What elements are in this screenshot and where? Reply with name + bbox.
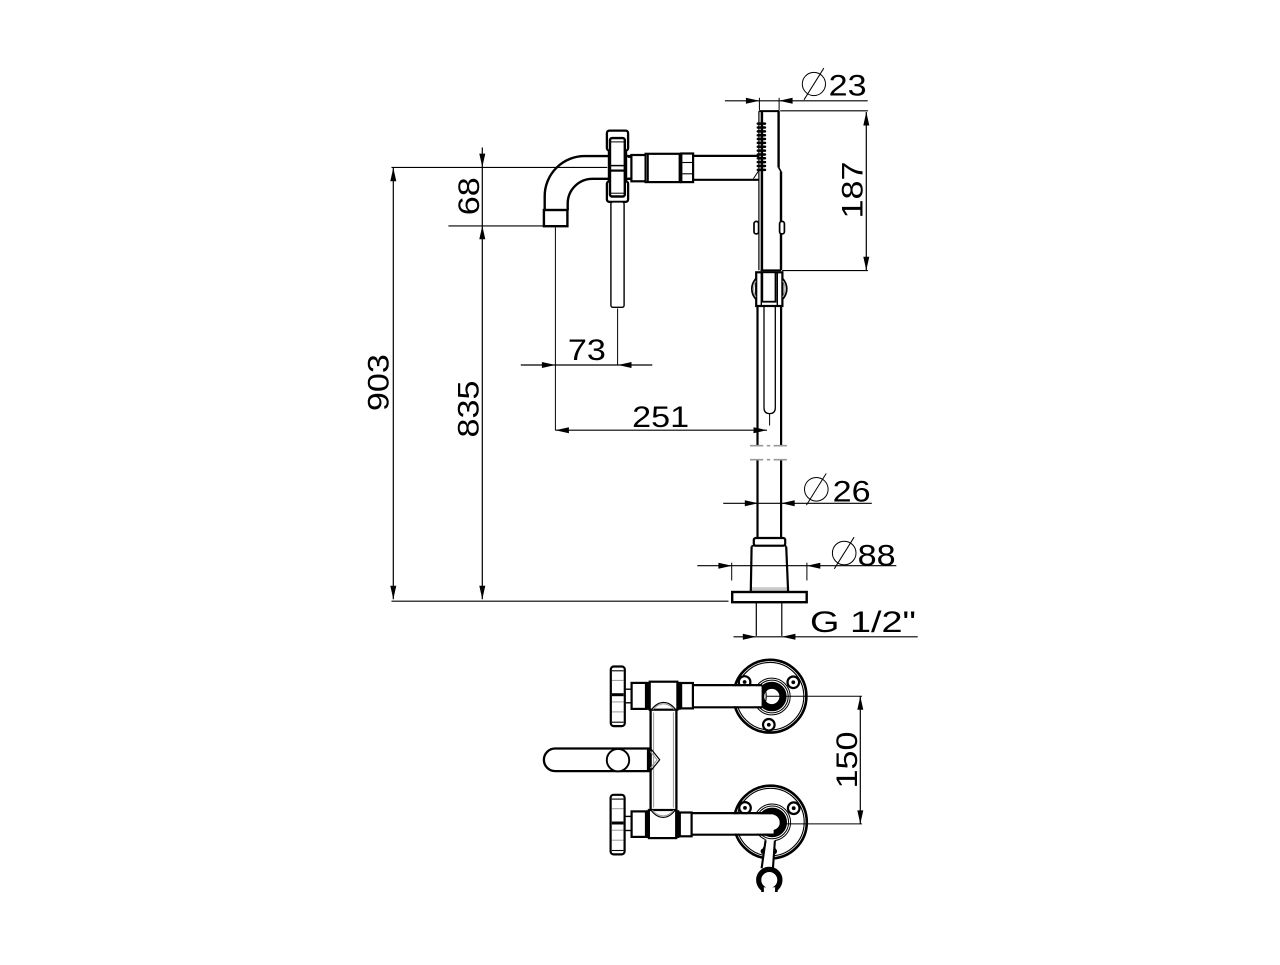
svg-text:23: 23 bbox=[829, 70, 867, 103]
svg-text:187: 187 bbox=[837, 162, 870, 219]
svg-text:68: 68 bbox=[453, 177, 486, 215]
svg-text:73: 73 bbox=[568, 334, 606, 367]
svg-text:251: 251 bbox=[632, 401, 689, 434]
svg-text:835: 835 bbox=[452, 381, 485, 438]
svg-text:G 1/2": G 1/2" bbox=[810, 606, 916, 639]
svg-text:26: 26 bbox=[833, 476, 871, 509]
svg-text:88: 88 bbox=[858, 540, 896, 573]
svg-text:903: 903 bbox=[363, 354, 396, 411]
svg-text:150: 150 bbox=[831, 732, 864, 789]
